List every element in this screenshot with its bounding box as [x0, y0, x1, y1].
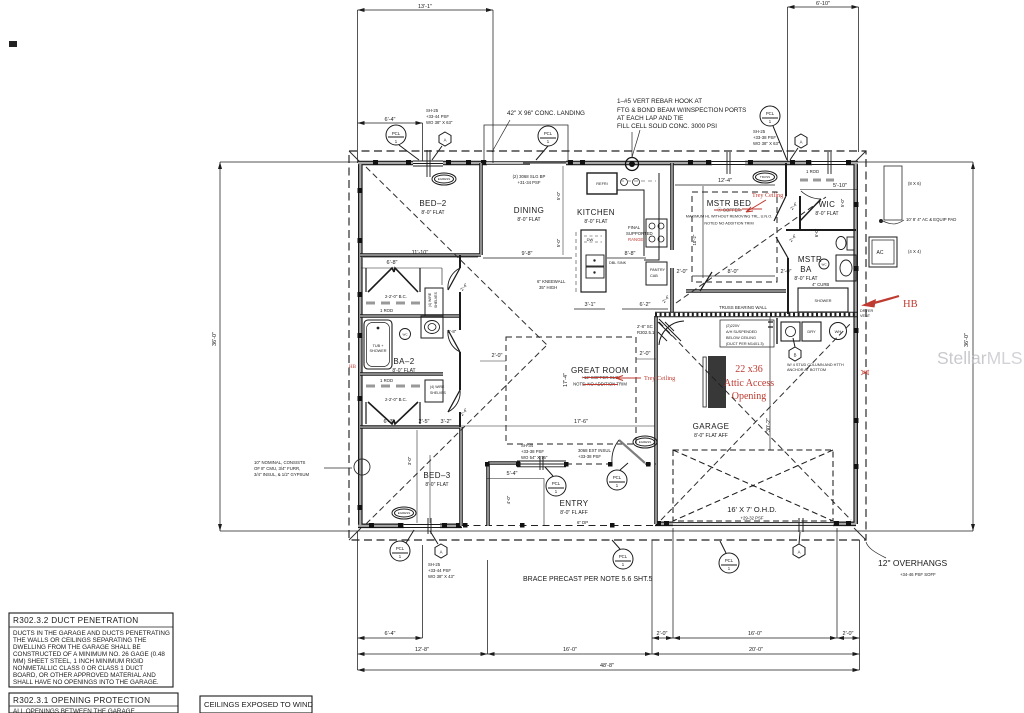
interior walls dark band: [360, 163, 786, 526]
svg-text:SHALL HAVE NO OPENINGS INTO TH: SHALL HAVE NO OPENINGS INTO THE GARAGE.: [13, 679, 159, 686]
svg-text:TUB +: TUB +: [373, 344, 385, 348]
svg-text:StellarMLS: StellarMLS: [937, 348, 1023, 368]
bed3 closet doors: [366, 402, 420, 424]
svg-text:13'-1": 13'-1": [418, 4, 432, 10]
dimension 36'-0" right side: [358, 162, 973, 531]
svg-text:THE WALLS OR CEILINGS SEPARATI: THE WALLS OR CEILINGS SEPARATING THE: [13, 637, 146, 644]
svg-text:GARAGE: GARAGE: [693, 422, 730, 431]
dimension 6'-10" top right: [788, 7, 859, 163]
diagonal D2 left wing: [366, 345, 547, 524]
interior walls gray core: [360, 163, 786, 526]
svg-text:12'-8": 12'-8": [415, 647, 429, 653]
svg-text:36'-0": 36'-0": [212, 332, 218, 346]
garage door x-brace box: [673, 450, 833, 521]
svg-text:2'-0": 2'-0": [640, 351, 651, 357]
bottom dimension row 2: [358, 653, 860, 655]
svg-text:17'-6": 17'-6": [574, 419, 588, 425]
sliding door dining: [487, 162, 566, 164]
kitchen fridge: [587, 173, 617, 194]
svg-text:8'-0" FLAT: 8'-0" FLAT: [421, 210, 444, 216]
great room tray ceiling dashed rect: [506, 337, 636, 444]
oval truss note mstr: [753, 171, 777, 183]
svg-text:VENT: VENT: [860, 314, 871, 318]
svg-text:DINING: DINING: [514, 206, 544, 215]
laundry washer dryer: [781, 322, 800, 341]
svg-text:12" OVERHANGS: 12" OVERHANGS: [878, 558, 947, 568]
svg-text:22 x36: 22 x36: [735, 364, 763, 375]
svg-text:WC: WC: [822, 263, 828, 267]
svg-text:Trey Ceiling: Trey Ceiling: [644, 375, 675, 382]
block ceilings exposed to wind: [200, 696, 312, 713]
svg-text:4" CURB: 4" CURB: [812, 282, 829, 287]
hexagon B laundry: [789, 338, 801, 361]
dimension 13'-1" top: [358, 10, 494, 163]
svg-text:30'-2": 30'-2": [766, 418, 772, 432]
callout circle left wall: [354, 459, 370, 475]
pcl circle top-left: [386, 125, 419, 160]
svg-text:6" KNEEWALL: 6" KNEEWALL: [537, 279, 566, 284]
svg-text:2-2'-0" B.C.: 2-2'-0" B.C.: [385, 294, 407, 299]
svg-text:BELOW CEILING: BELOW CEILING: [726, 336, 756, 340]
linen shelves upper: [425, 288, 443, 316]
svg-text:R302.3.1 OPENING PROTECTION: R302.3.1 OPENING PROTECTION: [13, 696, 150, 705]
diagonal D1 left wing: [366, 167, 547, 345]
closet rod bed2 (gray dashes): [366, 302, 424, 305]
svg-text:NOTE: NO ADDITION TRIM: NOTE: NO ADDITION TRIM: [573, 382, 627, 387]
svg-text:5'-0": 5'-0": [556, 191, 561, 200]
dimension 6'-4" upper left: [358, 123, 423, 161]
svg-text:17'-4": 17'-4": [563, 373, 569, 387]
svg-text:8'-0": 8'-0": [728, 269, 739, 275]
svg-text:+33-44 PSF: +33-44 PSF: [428, 568, 451, 573]
svg-text:(8 X 6): (8 X 6): [908, 181, 921, 186]
svg-text:DRY: DRY: [807, 329, 816, 334]
svg-text:35" HIGH: 35" HIGH: [539, 285, 557, 290]
ba2 toilet: [400, 329, 411, 340]
garage man door arc: [659, 319, 684, 345]
mstr east / wic west walls: [786, 163, 800, 230]
svg-text:DWELLING FROM THE GARAGE SHALL: DWELLING FROM THE GARAGE SHALL BE: [13, 644, 141, 651]
svg-text:BOARD, OR OTHER APPROVED MATER: BOARD, OR OTHER APPROVED MATERIAL AND: [13, 672, 156, 679]
svg-text:2-2'-0" B.C.: 2-2'-0" B.C.: [385, 397, 407, 402]
exterior walls gray core: [358, 163, 858, 526]
bottom extension lines: [358, 528, 860, 670]
window great room south: [517, 456, 566, 470]
overhang corner ticks: [349, 151, 866, 540]
svg-text:OF 8" CMU, 3/4" FURR,: OF 8" CMU, 3/4" FURR,: [254, 466, 300, 471]
svg-text:16'-0": 16'-0": [563, 647, 577, 653]
svg-text:3'-1": 3'-1": [585, 302, 596, 308]
dim line 11'-10" bed2: [363, 256, 478, 258]
svg-text:MSTR: MSTR: [798, 255, 822, 264]
svg-text:2'-0": 2'-0": [677, 269, 688, 275]
svg-text:SHOWER: SHOWER: [814, 299, 831, 303]
dim row bed3 top: [361, 425, 655, 427]
svg-text:SH-25: SH-25: [428, 562, 441, 567]
bed3 closet rod: [366, 385, 424, 388]
mstr shower: [798, 288, 848, 312]
diagonal mstr bed: [676, 197, 826, 303]
diagonal garage main: [659, 322, 851, 520]
wic south wall: [786, 229, 856, 231]
dim line 3'-1" 6'-2" kitchen bottom: [574, 308, 668, 310]
overhang dashed outline: [349, 151, 866, 540]
pcl circle entry door: [607, 463, 628, 490]
svg-text:DUCTS IN THE GARAGE AND DUCTS: DUCTS IN THE GARAGE AND DUCTS PENETRATIN…: [13, 630, 170, 637]
svg-text:WO 38" X 63": WO 38" X 63": [753, 141, 780, 146]
svg-text:R302.3.2 DUCT PENETRATION: R302.3.2 DUCT PENETRATION: [13, 616, 139, 625]
note a/h suspended: [720, 320, 774, 347]
svg-text:HB: HB: [349, 365, 357, 370]
svg-text:A: A: [440, 550, 443, 555]
svg-text:8'-0" FLAT AFF: 8'-0" FLAT AFF: [694, 433, 728, 439]
wic rod dashes: [800, 179, 834, 182]
svg-text:11'-10": 11'-10": [412, 250, 429, 256]
svg-text:+29-32 PSF: +29-32 PSF: [740, 516, 763, 521]
svg-text:+33-38 PSF: +33-38 PSF: [753, 135, 776, 140]
svg-text:2'-0": 2'-0": [492, 353, 503, 359]
svg-text:SHELVES: SHELVES: [430, 391, 447, 395]
svg-text:3068 EXT INSUL: 3068 EXT INSUL: [578, 448, 611, 453]
ba2 tub: [364, 320, 392, 369]
svg-text:12'-4": 12'-4": [718, 178, 732, 184]
dim line 8'-0" mstr: [692, 275, 775, 277]
svg-text:+31-34 PSF: +31-34 PSF: [517, 180, 540, 185]
svg-text:SHELVES: SHELVES: [434, 291, 438, 308]
svg-text:42" X 96" CONC. LANDING: 42" X 96" CONC. LANDING: [507, 110, 585, 117]
svg-text:Trey Ceiling: Trey Ceiling: [752, 192, 783, 199]
svg-text:5'-0": 5'-0": [840, 198, 845, 207]
dimension arrowheads: [218, 5, 975, 672]
hall door leaves: [448, 268, 460, 412]
svg-text:SHOWER: SHOWER: [369, 349, 386, 353]
garage attic text block: [703, 356, 726, 408]
conc landing rectangle: [484, 125, 568, 161]
svg-text:(2)220V: (2)220V: [726, 324, 740, 328]
svg-text:CONSTRUCTED OF A MINIMUM NO. 2: CONSTRUCTED OF A MINIMUM NO. 26 GAGE (0.…: [13, 651, 165, 658]
svg-text:+33-38 PSF: +33-38 PSF: [578, 454, 601, 459]
svg-text:4'-0": 4'-0": [506, 495, 511, 504]
svg-text:PCL: PCL: [544, 131, 553, 136]
svg-text:5'-0": 5'-0": [556, 238, 561, 247]
inspection port dot on top wall: [626, 158, 639, 171]
svg-text:BRACE PRECAST PER NOTE 5.6 SHT: BRACE PRECAST PER NOTE 5.6 SHT.5: [523, 576, 653, 583]
svg-text:(4) WIRE: (4) WIRE: [428, 292, 432, 307]
svg-text:10'-2": 10'-2": [692, 234, 697, 245]
svg-text:A/H SUSPENDED: A/H SUSPENDED: [726, 330, 757, 334]
svg-text:9'-8": 9'-8": [522, 251, 533, 257]
window bottom bed3: [404, 518, 440, 534]
linen shelves lower: [425, 380, 443, 402]
pcl circle garage door: [719, 541, 739, 573]
bottom dimension row 1: [358, 637, 860, 639]
svg-text:8'-0" FLAT: 8'-0" FLAT: [425, 482, 448, 488]
svg-text:PCL: PCL: [396, 546, 405, 551]
pcl circle bed3: [390, 530, 414, 561]
bed2 closet: [366, 268, 420, 292]
svg-text:WIC: WIC: [819, 200, 836, 209]
svg-text:8'-8": 8'-8": [625, 251, 636, 257]
great room tray offset dims: [480, 359, 656, 361]
svg-text:1 ROD: 1 ROD: [380, 308, 393, 313]
entry door arc: [619, 440, 645, 463]
svg-text:A: A: [798, 550, 801, 555]
pcl circle top-right: [760, 106, 787, 160]
svg-text:AT EACH LAP AND TIE: AT EACH LAP AND TIE: [617, 115, 683, 122]
svg-text:6'-8": 6'-8": [387, 260, 398, 266]
svg-text:ALL OPENINGS BETWEEN THE GARAG: ALL OPENINGS BETWEEN THE GARAGE: [13, 708, 135, 713]
svg-text:2'-8" SC: 2'-8" SC: [637, 324, 653, 329]
oval egress bed3: [392, 507, 416, 519]
svg-text:A: A: [800, 140, 803, 145]
block R302.3.2 duct penetration: [9, 613, 173, 687]
hexagon A bed3: [430, 531, 447, 558]
bottom dimension row 3: [358, 669, 860, 671]
window top wall bed2: [413, 150, 443, 177]
svg-text:(4) WIRE: (4) WIRE: [430, 385, 445, 389]
svg-text:SH-25: SH-25: [753, 129, 766, 134]
svg-text:2'-0": 2'-0": [843, 631, 854, 637]
svg-text:48'-8": 48'-8": [600, 663, 614, 669]
svg-text:FTG & BOND BEAM W/INSPECTION P: FTG & BOND BEAM W/INSPECTION PORTS: [617, 107, 746, 114]
window top wall mstr: [712, 152, 745, 174]
svg-text:6'-10": 6'-10": [816, 1, 830, 7]
svg-text:PCL: PCL: [613, 475, 622, 480]
porch slab edge: [462, 525, 655, 527]
svg-text:+34-46 PSF SOFF: +34-46 PSF SOFF: [900, 572, 936, 577]
svg-text:6" DP: 6" DP: [577, 520, 588, 525]
garage center post line: [769, 317, 771, 450]
svg-text:AC: AC: [877, 250, 884, 256]
svg-text:WH: WH: [835, 329, 842, 334]
svg-text:8'-0" FLAT: 8'-0" FLAT: [392, 368, 415, 374]
svg-text:ANCHOR AT BOTTOM: ANCHOR AT BOTTOM: [787, 368, 826, 372]
svg-text:2'-0": 2'-0": [781, 269, 792, 275]
svg-text:PCL: PCL: [552, 481, 561, 486]
svg-text:DBL SINK: DBL SINK: [609, 261, 627, 265]
svg-text:SH-25: SH-25: [426, 108, 439, 113]
svg-text:BA: BA: [800, 265, 812, 274]
window top wall wic: [812, 152, 846, 174]
svg-text:16' X 7' O.H.D.: 16' X 7' O.H.D.: [727, 505, 777, 514]
svg-text:RANGE: RANGE: [628, 237, 643, 242]
red HB arrow: [872, 296, 899, 304]
svg-text:Opening: Opening: [732, 391, 766, 402]
mstr toilet: [836, 237, 846, 250]
hall door arcs: [448, 268, 460, 412]
svg-text:EGRESS: EGRESS: [639, 440, 652, 444]
dim line 17'-6" great room: [506, 425, 655, 427]
hexagon A garage door: [793, 532, 805, 558]
svg-text:WO 38" X 63": WO 38" X 63": [426, 120, 453, 125]
svg-text:DW: DW: [587, 237, 594, 242]
svg-text:HB: HB: [903, 299, 918, 310]
svg-text:2'-0": 2'-0": [657, 631, 668, 637]
pcl circle landing: [536, 126, 558, 160]
svg-text:WC: WC: [403, 333, 409, 337]
svg-text:W/ 4 STUD COLUMN AND HTTH: W/ 4 STUD COLUMN AND HTTH: [787, 363, 844, 367]
kitchen counter right: [617, 173, 659, 260]
pantry cab: [646, 262, 667, 285]
svg-text:(DUCT PER M1401.3): (DUCT PER M1401.3): [726, 342, 764, 346]
garage door opening: [673, 518, 833, 532]
svg-text:10" NOMINAL, CONSISTS: 10" NOMINAL, CONSISTS: [254, 460, 306, 465]
svg-text:8'-0" FL AFF: 8'-0" FL AFF: [560, 510, 588, 516]
svg-text:BA–2: BA–2: [393, 357, 414, 366]
svg-text:EGRESS: EGRESS: [398, 511, 411, 515]
svg-text:CEILINGS EXPOSED TO WIND: CEILINGS EXPOSED TO WIND: [204, 700, 314, 709]
exterior walls dark band: [358, 163, 858, 526]
scan artifact mark top-left: [9, 41, 17, 47]
svg-text:8'-0" FLAT: 8'-0" FLAT: [517, 217, 540, 223]
svg-text:PCL: PCL: [725, 558, 734, 563]
svg-text:KITCHEN: KITCHEN: [577, 208, 615, 217]
svg-text:PCL: PCL: [766, 111, 775, 116]
oval truss note bed2: [432, 173, 456, 185]
svg-text:1 ROD: 1 ROD: [806, 169, 819, 174]
svg-text:36'-0": 36'-0": [964, 333, 970, 347]
ba2 vanity: [421, 316, 443, 338]
svg-text:10' 8' 4" AC & EQUIP PAD: 10' 8' 4" AC & EQUIP PAD: [906, 217, 956, 222]
svg-text:BED–3: BED–3: [423, 471, 450, 480]
dim line 9'-8" dining: [483, 257, 572, 259]
svg-text:DRYER: DRYER: [860, 309, 873, 313]
truss bearing wall: [655, 312, 858, 317]
dining 5'-0" vertical dim: [562, 166, 564, 255]
svg-text:REFRI: REFRI: [596, 182, 607, 186]
hexagon A top-right: [790, 134, 807, 160]
svg-text:NONMETALLIC CLASS 0 OR CLASS 1: NONMETALLIC CLASS 0 OR CLASS 1 DUCT: [13, 665, 143, 672]
svg-text:3/4" INSUL, & 1/2" GYPSUM: 3/4" INSUL, & 1/2" GYPSUM: [254, 472, 310, 477]
svg-text:FINAL: FINAL: [628, 225, 641, 230]
svg-text:SUPPORTED: SUPPORTED: [626, 231, 653, 236]
svg-text:PANTRY: PANTRY: [650, 268, 666, 272]
svg-text:6'-2": 6'-2": [640, 302, 651, 308]
oval egress great room: [633, 436, 657, 448]
wall anchor squares: [358, 160, 859, 528]
pcl circle entry bottom: [612, 540, 633, 569]
kitchen range: [646, 219, 667, 247]
dimension labels: [212, 1, 970, 669]
mstr ba west wall: [787, 258, 789, 314]
svg-text:+33-38 PSF: +33-38 PSF: [521, 449, 544, 454]
dim line 12'-4" mstr: [675, 185, 775, 278]
svg-text:GREAT ROOM: GREAT ROOM: [571, 366, 629, 375]
mstr tray ceiling dashed rect: [692, 192, 777, 282]
svg-text:(4 X 4): (4 X 4): [908, 249, 921, 254]
dim line 8'-8" kitchen: [607, 257, 646, 259]
svg-text:1–#5 VERT REBAR HOOK AT: 1–#5 VERT REBAR HOOK AT: [617, 98, 702, 105]
svg-text:ENTRY: ENTRY: [560, 499, 589, 508]
svg-text:1 ROD: 1 ROD: [380, 378, 393, 383]
svg-text:8'-0" FLAT: 8'-0" FLAT: [584, 219, 607, 225]
svg-text:WO 54" X 76": WO 54" X 76": [521, 455, 548, 460]
svg-text:6'-4": 6'-4": [385, 631, 396, 637]
hall tiny dim labels: [448, 198, 845, 417]
svg-text:8'-0" FLAT: 8'-0" FLAT: [815, 211, 838, 217]
svg-text:5'-4": 5'-4": [507, 471, 518, 477]
svg-text:B: B: [794, 353, 797, 358]
svg-text:R302.5.1: R302.5.1: [637, 330, 655, 335]
garage corner hatch: [658, 322, 674, 341]
svg-text:Attic Access: Attic Access: [724, 378, 774, 389]
svg-text:A: A: [444, 138, 447, 143]
block R302.3.1 opening protection: [9, 693, 178, 713]
mstr vanity: [836, 255, 856, 281]
svg-text:(2) 3068 SLG BP: (2) 3068 SLG BP: [513, 174, 546, 179]
svg-text:+33-44 PSF: +33-44 PSF: [426, 114, 449, 119]
hall east wall x460: [459, 255, 461, 427]
svg-text:MM) SHEET STEEL, 1 INCH MINIMU: MM) SHEET STEEL, 1 INCH MINIMUM RIGID: [13, 658, 144, 665]
svg-text:6'-0": 6'-0": [814, 228, 819, 237]
svg-text:PCL: PCL: [619, 554, 628, 559]
wic shelf diagonals: [800, 199, 821, 221]
hexagon A top-left: [432, 132, 451, 160]
svg-text:3'-0": 3'-0": [407, 456, 412, 465]
svg-text:5'-10": 5'-10": [833, 183, 847, 189]
svg-text:16'-0": 16'-0": [748, 631, 762, 637]
pcl circle entry window: [545, 467, 566, 496]
svg-text:BED–2: BED–2: [419, 199, 446, 208]
svg-text:CAB: CAB: [650, 274, 658, 278]
svg-text:FILL CELL SOLID CONC. 3000 PSI: FILL CELL SOLID CONC. 3000 PSI: [617, 123, 717, 130]
kitchen island: [581, 230, 606, 292]
svg-text:PCL: PCL: [392, 131, 401, 136]
svg-text:NOTED NO ADDITION TRIM: NOTED NO ADDITION TRIM: [704, 222, 753, 226]
svg-text:EGRESS: EGRESS: [438, 177, 451, 181]
mstr door leaves: [700, 196, 788, 291]
svg-text:TRUSS: TRUSS: [760, 175, 770, 179]
svg-text:3'-2": 3'-2": [441, 419, 452, 425]
diagonal garage second: [661, 323, 851, 520]
entry dashed ceiling line: [566, 463, 656, 465]
dimension 36'-0" left side: [220, 162, 358, 531]
svg-text:TRUSS BEARING WALL: TRUSS BEARING WALL: [719, 305, 767, 310]
svg-text:20'-0": 20'-0": [749, 647, 763, 653]
svg-text:WO 38" X 43": WO 38" X 43": [428, 574, 455, 579]
svg-text:MAXIMUM HL WITHOUT REMOVING TR: MAXIMUM HL WITHOUT REMOVING TRL, U.N.O.: [686, 215, 772, 219]
svg-text:6'-4": 6'-4": [385, 117, 396, 123]
ac unit pad: [884, 166, 902, 220]
